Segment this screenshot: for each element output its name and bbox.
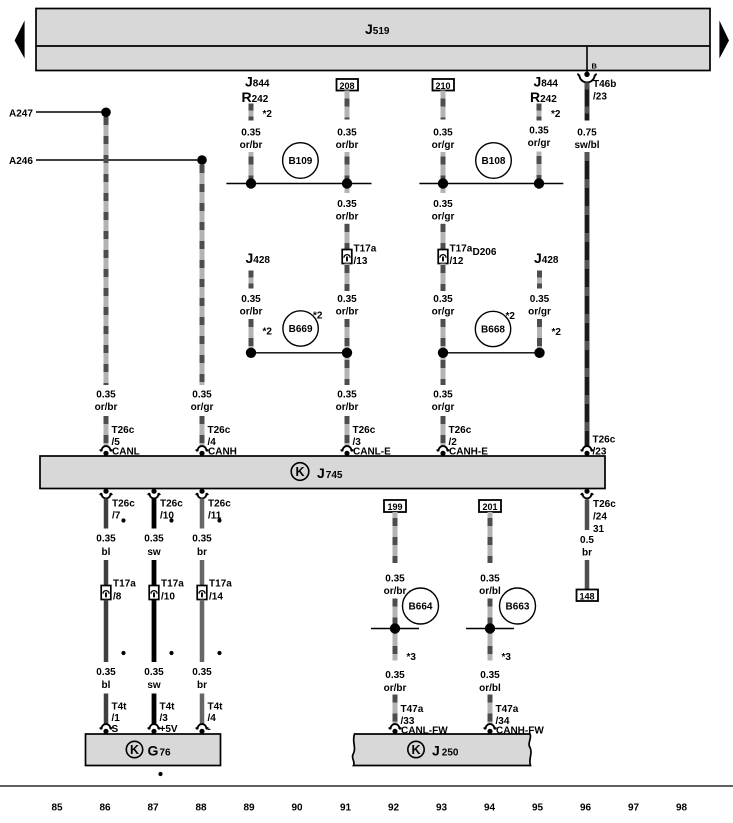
component J428 (right) [534,250,559,266]
svg-text:or/bl: or/bl [479,586,501,597]
junction node right of B109 [342,178,352,188]
junction node left of B108 [438,178,448,188]
svg-text:bl: bl [102,547,111,558]
svg-text:T26c: T26c [208,425,231,436]
svg-text:/13: /13 [354,256,368,267]
wire br segment [200,560,205,586]
svg-text:or/br: or/br [384,586,407,597]
splice line B108 row [419,183,563,185]
svg-text:/23: /23 [593,92,607,103]
bus bar J519 [36,9,710,71]
svg-text:0.35: 0.35 [433,390,453,401]
svg-text:D206: D206 [473,247,497,258]
svg-text:T17a: T17a [354,244,377,255]
svg-text:148: 148 [579,591,594,601]
wire or/gr below 210 [441,91,446,120]
wire label 0.35 or/br [336,128,359,152]
svg-text:89: 89 [243,803,255,814]
terminal box 210 [433,79,455,91]
sensor G76 [86,734,221,766]
svg-text:0.35: 0.35 [480,574,500,585]
svg-text:201: 201 [482,502,497,512]
component J844 R242 (left) [242,74,270,106]
svg-text:T17a: T17a [161,579,184,590]
svg-text:T26c: T26c [112,499,135,510]
wire stub below R242 left [251,104,272,121]
svg-text:88: 88 [195,803,207,814]
wire or/gr to B668 node [537,319,542,353]
wire label 0.35 or/gr [528,126,551,150]
wire or/bl to pin [488,695,493,725]
svg-text:*3: *3 [502,652,512,663]
inline connector T17a/8 [101,579,136,603]
wire or/gr to node [441,152,446,184]
svg-text:97: 97 [628,803,640,814]
wire bl segment [104,499,109,529]
wire sw segment [152,560,157,586]
svg-text:or/gr: or/gr [432,212,455,223]
wire label 0.35 bl [96,534,116,559]
footnote dot [217,651,221,655]
pin T26c/4 CANH [196,425,237,458]
wire or/br to pin [393,695,398,725]
svg-text:/10: /10 [161,592,175,603]
svg-text:or/br: or/br [336,140,359,151]
svg-text:0.35: 0.35 [241,128,261,139]
pin T26c/2 CANH-E [437,425,488,458]
splice line B109 row [226,183,371,185]
inline connector T17a/12 D206 [438,244,497,268]
junction node right of B669 [342,348,352,358]
svg-text:/8: /8 [113,592,122,603]
svg-text:0.35: 0.35 [433,128,453,139]
svg-text:B663: B663 [506,602,530,613]
pin T26c/7 [100,489,135,523]
svg-text:0.35: 0.35 [530,294,550,305]
pin T26c/24 terminal 31 [581,489,616,535]
svg-text:or/br: or/br [336,402,359,413]
svg-text:or/br: or/br [240,307,263,318]
svg-text:0.35: 0.35 [144,667,164,678]
wire or/gr to node [537,152,542,184]
svg-text:0.75: 0.75 [577,128,597,139]
svg-text:B668: B668 [481,325,505,336]
svg-text:T47a: T47a [496,704,519,715]
right bus arrow [719,21,729,59]
junction node left of B668 [438,348,448,358]
wire label 0.35 or/bl [479,670,501,694]
wire sw/bl upper segment [585,83,590,121]
svg-text:br: br [197,547,207,558]
splice line B669 row [251,352,347,354]
terminal box 201 [479,500,501,512]
wire sw/bl long segment [585,152,590,446]
component J844 R242 (right) [530,74,558,106]
junction node B663 [466,623,514,633]
svg-text:0.35: 0.35 [96,390,116,401]
splice circle B108 [476,143,512,179]
wire or/gr from A246 [200,160,205,385]
svg-text:*2: *2 [263,109,273,120]
footnote dot [121,651,125,655]
svg-text:or/br: or/br [240,140,263,151]
svg-text:T26c: T26c [593,499,616,510]
svg-text:or/br: or/br [95,402,118,413]
svg-text:*2: *2 [552,327,562,338]
wire sw segment [152,499,157,529]
splice circle B664 [403,588,439,624]
junction node left of B669 [246,348,256,358]
svg-text:sw/bl: sw/bl [574,140,599,151]
svg-text:/3: /3 [160,713,169,724]
svg-text:96: 96 [580,803,592,814]
svg-text:85: 85 [51,803,63,814]
pin T26c/3 CANL-E [341,425,391,458]
svg-text:0.35: 0.35 [433,294,453,305]
svg-text:or/gr: or/gr [528,307,551,318]
svg-text:or/br: or/br [384,683,407,694]
svg-text:K: K [295,465,304,479]
svg-text:K: K [411,743,420,757]
pin T4t/1 S [100,702,127,736]
svg-text:T26c: T26c [593,435,616,446]
svg-text:94: 94 [484,803,496,814]
pin T47a/34 CANH-FW [484,704,544,737]
svg-text:87: 87 [147,803,159,814]
svg-text:br: br [197,680,207,691]
svg-text:0.35: 0.35 [385,670,405,681]
wire or/bl to node [488,599,493,629]
svg-text:0.35: 0.35 [337,128,357,139]
wire or/br from A247 [104,112,109,385]
svg-text:0.35: 0.35 [337,199,357,210]
svg-text:K: K [130,743,139,757]
svg-text:0.5: 0.5 [580,535,594,546]
wire label 0.35 sw [144,667,164,691]
wire label 0.35 or/gr [191,390,214,414]
wire or/br below 199 [393,512,398,563]
wire label 0.35 or/bl [479,574,501,598]
wire or/gr below B668 node [432,353,455,447]
svg-text:98: 98 [676,803,688,814]
wire bl segment [104,694,109,725]
junction node B664 [371,623,419,633]
terminal box 208 [337,79,359,91]
wire stub below J428 right [537,271,542,289]
splice circle B668 [475,311,515,347]
wire br segment [200,600,205,663]
pin T26c/11 [196,489,231,523]
wire stub to pin T26c/5 [104,416,109,447]
wire or/gr below T17a/12 [432,264,455,353]
svg-text:91: 91 [340,803,352,814]
svg-text:95: 95 [532,803,544,814]
splice circle B109 [283,143,319,179]
svg-text:A246: A246 [9,156,33,167]
svg-text:*2: *2 [263,327,273,338]
svg-text:86: 86 [99,803,111,814]
wire br segment [585,560,590,590]
left bus arrow [15,21,25,59]
wire label 0.35 or/br [240,128,263,152]
wire stub to pin T26c/4 [200,416,205,447]
component J428 (left) [246,250,271,266]
wire label 0.35 br [192,534,212,559]
wire bl segment [104,600,109,663]
node A246 [9,156,202,167]
svg-text:T17a: T17a [450,244,473,255]
svg-text:or/gr: or/gr [432,140,455,151]
junction dot A247 [101,108,111,118]
svg-text:T47a: T47a [401,704,424,715]
wire or/br below B669 node [336,353,359,447]
wire br segment [200,499,205,529]
svg-text:0.35: 0.35 [241,294,261,305]
wire label 0.35 or/gr [528,294,561,338]
pin T26c/5 CANL [100,425,140,458]
node A247 [9,108,106,119]
pin T4t/3 +5V [148,702,178,736]
wire label 0.5 br [580,535,594,559]
splice circle B669 [283,311,323,347]
svg-text:199: 199 [387,502,402,512]
svg-text:*2: *2 [506,311,516,322]
wire label 0.35 or/br [95,390,118,414]
pin T4t/4 - [196,702,223,736]
wire or/br below node [336,184,359,250]
wire label 0.35 br [192,667,212,691]
svg-text:*2: *2 [313,311,323,322]
svg-text:B664: B664 [409,602,433,613]
wire or/bl below node [490,629,511,664]
connector T46b/23 [577,72,616,103]
svg-text:210: 210 [435,81,450,91]
ground reference box 148 [577,590,599,602]
wire sw segment [152,694,157,725]
svg-text:T17a: T17a [209,579,232,590]
svg-text:0.35: 0.35 [96,534,116,545]
svg-text:or/gr: or/gr [432,307,455,318]
footnote dot below G76 [158,772,162,776]
svg-text:T17a: T17a [113,579,136,590]
svg-text:0.35: 0.35 [192,390,212,401]
pin T47a/33 CANL-FW [389,704,448,737]
pin T26c/23 [581,435,616,458]
control unit J745 [40,456,605,489]
svg-text:sw: sw [147,680,161,691]
svg-text:sw: sw [147,547,161,558]
wire or/br to node [393,599,398,629]
svg-text:T4t: T4t [160,702,176,713]
wire or/br to node [249,152,254,184]
svg-text:/1: /1 [112,713,121,724]
junction node left of B109 [246,178,256,188]
svg-text:T26c: T26c [449,425,472,436]
footnote dot [169,651,173,655]
svg-text:*3: *3 [407,652,417,663]
svg-text:br: br [582,548,592,559]
svg-text:0.35: 0.35 [144,534,164,545]
inline connector T17a/10 [149,579,184,603]
wire stub below R242 right [539,104,561,121]
inline connector T17a/13 [342,244,377,268]
svg-text:/24: /24 [593,512,607,523]
svg-text:0.35: 0.35 [433,199,453,210]
wire or/br to B669 node [249,319,254,353]
wire or/gr below node [432,184,455,250]
svg-text:or/gr: or/gr [432,402,455,413]
svg-text:B108: B108 [482,156,506,167]
wire label 0.35 or/br [384,670,407,694]
svg-text:0.35: 0.35 [385,574,405,585]
svg-text:0.35: 0.35 [529,126,549,137]
svg-text:T46b: T46b [593,79,616,90]
svg-text:0.35: 0.35 [192,534,212,545]
terminal box 199 [384,500,406,512]
svg-text:0.35: 0.35 [480,670,500,681]
pin T26c/10 [148,489,183,523]
svg-text:or/br: or/br [336,212,359,223]
wire or/br below 208 [345,91,350,120]
svg-text:/4: /4 [208,713,217,724]
svg-text:90: 90 [291,803,303,814]
wire label 0.35 bl [96,667,116,691]
svg-text:or/br: or/br [336,307,359,318]
wire br segment [200,694,205,725]
svg-text:B669: B669 [289,324,313,335]
svg-text:T4t: T4t [208,702,224,713]
svg-text:or/gr: or/gr [191,402,214,413]
inline connector T17a/14 [197,579,232,603]
svg-text:0.35: 0.35 [337,294,357,305]
node B tap from bus [587,47,598,73]
svg-text:T26c: T26c [112,425,135,436]
wire or/br to node [345,152,350,184]
wire or/br below node [395,629,416,664]
wire br below T26c/24 [585,500,590,531]
junction node right of B108 [534,178,544,188]
svg-text:or/bl: or/bl [479,683,501,694]
svg-text:0.35: 0.35 [192,667,212,678]
svg-text:T26c: T26c [353,425,376,436]
svg-text:92: 92 [388,803,400,814]
svg-text:bl: bl [102,680,111,691]
svg-text:93: 93 [436,803,448,814]
svg-text:A247: A247 [9,108,33,119]
wire label 0.35 or/gr [432,128,455,152]
splice circle B663 [500,588,536,624]
control unit J250 [352,734,531,766]
wire label 0.75 sw/bl [574,128,599,152]
svg-text:B109: B109 [288,156,312,167]
bottom rail [0,785,733,787]
svg-text:/14: /14 [209,592,223,603]
wire bl segment [104,560,109,586]
wire label 0.35 or/br [384,574,407,598]
wire or/bl below 201 [488,512,493,563]
svg-text:T4t: T4t [112,702,128,713]
wire label 0.35 sw [144,534,164,559]
splice line B668 row [443,352,540,354]
svg-text:0.35: 0.35 [96,667,116,678]
wire sw segment [152,600,157,663]
svg-text:T26c: T26c [160,499,183,510]
svg-text:208: 208 [339,81,354,91]
svg-text:B: B [592,62,598,71]
junction node right of B668 [534,348,544,358]
svg-text:31: 31 [593,524,605,535]
svg-text:0.35: 0.35 [337,390,357,401]
svg-text:/7: /7 [112,511,121,522]
svg-text:T26c: T26c [208,499,231,510]
wire stub below J428 left [249,271,254,289]
wire label 0.35 or/br [240,294,273,338]
svg-text:*2: *2 [551,109,561,120]
svg-text:/12: /12 [450,256,464,267]
svg-text:or/gr: or/gr [528,138,551,149]
junction dot A246 [197,155,207,165]
wire or/br below T17a/13 [336,264,359,353]
